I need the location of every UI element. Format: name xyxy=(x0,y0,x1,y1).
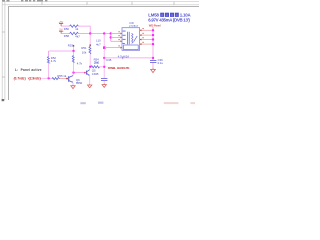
wire Q5 emitter xyxy=(89,76,91,84)
wire vertical x103.6 upper xyxy=(103,34,105,48)
pin 7 of U30 (right) xyxy=(140,37,153,40)
U30 core bars xyxy=(127,32,129,45)
svg-text:10k: 10k xyxy=(94,61,99,65)
tick on wire y58 xyxy=(122,57,124,59)
transistor Q6 xyxy=(69,76,73,83)
svg-text:(0.7vdc): (0.7vdc) xyxy=(14,76,26,80)
wire R51 to node67 xyxy=(89,54,91,67)
pin 8 of U30 (right) xyxy=(140,42,153,45)
wire Q5 base xyxy=(74,72,87,74)
svg-text:LTV817: LTV817 xyxy=(129,24,139,28)
pin hotspot R51 top xyxy=(90,44,91,46)
pin 2 of U30 xyxy=(111,35,122,38)
wire R53 top lead xyxy=(73,47,75,51)
pin 4 of U30 xyxy=(105,45,122,48)
node junction (104.2,47.6) xyxy=(103,46,106,49)
wire R54 to column xyxy=(99,66,104,68)
wire rail to R55 xyxy=(49,77,52,79)
transformer U30 box xyxy=(122,28,140,51)
node junction (110.7,33) xyxy=(110,32,112,34)
svg-text:4.7uH/2A: 4.7uH/2A xyxy=(118,54,129,58)
resistor R54 xyxy=(91,66,99,68)
node junction (48.6,78.3) xyxy=(47,77,49,79)
node junction (110.7,37.4) xyxy=(110,36,112,38)
capacitor C36 xyxy=(150,60,156,62)
wire y51 horizontal xyxy=(49,50,74,52)
pin 5 of U30 (right) xyxy=(140,28,153,31)
resistor R55 xyxy=(52,78,60,80)
node junction (153,57.9) xyxy=(152,57,154,59)
pin 6 of U30 (right) xyxy=(140,33,153,36)
left ruler end nub xyxy=(2,99,5,101)
pin 1 of U30 xyxy=(111,31,122,34)
resistor R51 xyxy=(89,46,91,54)
pin 3 of U30 xyxy=(111,39,122,42)
wire R53 to node72 xyxy=(73,63,75,73)
pin hotspot Q6 base xyxy=(66,78,68,80)
left ruler strip xyxy=(2,2,5,100)
wire Q6 emitter xyxy=(72,83,74,85)
wire 5V to R58 xyxy=(61,33,70,35)
svg-text:R58: R58 xyxy=(64,34,70,38)
sheet border left xyxy=(7,6,9,100)
svg-text:4k7: 4k7 xyxy=(75,34,80,38)
svg-text:0.1u: 0.1u xyxy=(158,61,164,65)
svg-text:C945: C945 xyxy=(92,72,99,76)
node junction (104.2,33) xyxy=(103,32,105,34)
wire C35 to ground xyxy=(103,81,105,84)
wire vertical x110.7 xyxy=(110,34,112,42)
svg-text:WD-Panel: WD-Panel xyxy=(149,24,161,28)
svg-text:4.7k: 4.7k xyxy=(51,59,57,63)
wire vertical x153 xyxy=(152,27,154,61)
node junction (90.2,66.8) xyxy=(89,66,91,68)
bottom partial text blue 1 xyxy=(80,102,85,104)
bottom partial text red 1 xyxy=(164,102,179,104)
sheet border top xyxy=(8,5,199,7)
pin hotspot Q5 base xyxy=(84,72,86,74)
node junction (90,33) xyxy=(89,32,91,34)
svg-text:R53: R53 xyxy=(68,44,74,48)
node junction (153,44.1) xyxy=(152,43,154,45)
U30 diode arrow xyxy=(134,36,138,42)
power port 5V (upper) xyxy=(59,20,64,26)
svg-text:6.97V 435mA (DVB 13'): 6.97V 435mA (DVB 13') xyxy=(148,18,190,23)
ground (under Q5) xyxy=(88,84,92,88)
wire R53 upper lead xyxy=(73,51,75,55)
wire y57.9 horizontal xyxy=(104,57,153,59)
wire R50 to corner xyxy=(78,26,90,33)
U30 left edge pin marks xyxy=(123,31,126,44)
wire R52 to node78 xyxy=(48,63,50,78)
node junction (153,30.3) xyxy=(152,29,154,31)
U30 inner box xyxy=(124,45,139,50)
svg-text:R55 1k: R55 1k xyxy=(57,74,66,78)
annotation text top-right line 1 xyxy=(148,13,191,18)
power port 5V (lower) xyxy=(59,28,63,34)
resistor R58 xyxy=(70,32,79,34)
svg-text:PANEL_BACKLITE: PANEL_BACKLITE xyxy=(108,66,130,70)
wire left rail corner xyxy=(48,51,50,57)
wire 5V to R50 xyxy=(61,25,70,27)
top edge toolbar remnants xyxy=(2,0,47,2)
svg-text:›(2.9vdc): ›(2.9vdc) xyxy=(28,76,41,80)
svg-text:L: Panel active: L: Panel active xyxy=(15,68,42,72)
capacitor C35 xyxy=(101,78,107,80)
wire R55 to Q6 base xyxy=(60,78,69,80)
svg-text:10k: 10k xyxy=(82,51,87,55)
svg-text:R50: R50 xyxy=(64,27,70,31)
resistor R50 xyxy=(70,25,79,27)
svg-text:8550: 8550 xyxy=(76,81,83,85)
transistor Q5 xyxy=(87,70,90,76)
wire node72 down xyxy=(72,73,74,76)
bottom partial text red 2 xyxy=(190,102,195,104)
wire main net y33 xyxy=(90,33,111,35)
wire R58 to node xyxy=(78,33,90,35)
node junction (73.5,72.6) xyxy=(72,71,74,73)
node junction (73.5,51) xyxy=(72,50,74,52)
svg-text:R51: R51 xyxy=(81,46,87,50)
svg-text:C35: C35 xyxy=(106,58,112,62)
node junction (153,39.5) xyxy=(152,38,154,40)
wire y78.3 left stub xyxy=(40,77,49,79)
resistor R52 xyxy=(47,57,49,64)
wire vertical x103.6 mid xyxy=(103,48,105,79)
node junction (104.2,66.8) xyxy=(103,66,105,68)
node junction (104.2,57.9) xyxy=(103,57,105,59)
svg-text:4.7k: 4.7k xyxy=(77,61,83,65)
resistor R53 xyxy=(72,55,74,62)
bottom partial text blue 2 xyxy=(98,102,103,104)
ground (under Q6) xyxy=(71,85,75,89)
pin hotspot R53 top xyxy=(73,45,74,47)
wire Q5 collector xyxy=(89,67,91,70)
wire x90 down from node33 xyxy=(89,34,91,45)
U30 winding xyxy=(132,33,133,43)
ground (under C35) xyxy=(102,84,106,88)
top ruler band xyxy=(2,2,199,5)
node junction (153,35.1) xyxy=(152,34,154,36)
ground (right, power gnd arrow) xyxy=(151,68,156,73)
wire C36 to ground xyxy=(152,63,154,68)
top ruler ticks xyxy=(42,2,174,5)
left ruler tick xyxy=(2,32,5,77)
svg-text:4u7: 4u7 xyxy=(96,43,101,47)
